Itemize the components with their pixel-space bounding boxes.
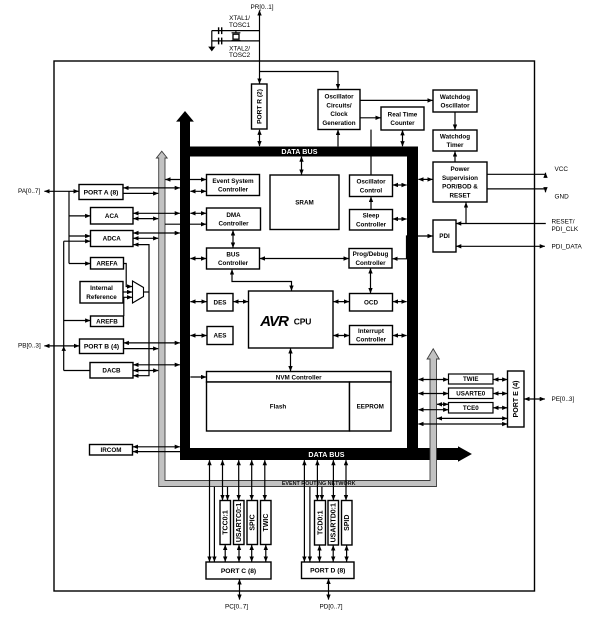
- svg-text:Internal: Internal: [90, 285, 113, 292]
- wire data bus to TCC0:1: [222, 460, 224, 500]
- wire data bus to clock generation: [337, 130, 339, 147]
- capacitor C1 plates (XTAL1 wire): [219, 27, 222, 34]
- svg-text:TWIC: TWIC: [263, 514, 270, 532]
- chip boundary box: [54, 61, 535, 591]
- port box PORT A (8): [79, 185, 123, 200]
- capacitor C2 plates (XTAL2 wire): [219, 38, 222, 45]
- svg-text:DATA BUS: DATA BUS: [308, 451, 344, 459]
- block SRAM: [270, 175, 339, 230]
- svg-text:EVENT ROUTING NETWORK: EVENT ROUTING NETWORK: [282, 481, 356, 487]
- block Interrupt Controller: [350, 326, 393, 345]
- wire trunk 1 to ADCA: [69, 235, 90, 237]
- junction arrow (trunk 2 into PB line): [62, 346, 67, 351]
- svg-text:Watchdog: Watchdog: [440, 133, 470, 140]
- peripheral box USARTC0:1: [234, 501, 245, 545]
- svg-text:PDI: PDI: [439, 233, 450, 240]
- wire mux output net (to ADCA and DACB): [134, 245, 149, 376]
- peripheral box TCD0:1: [315, 501, 326, 546]
- svg-text:Prog/Debug: Prog/Debug: [353, 251, 389, 258]
- wire clock generation to watchdog oscillator: [360, 99, 432, 101]
- block Sleep Controller: [350, 210, 393, 231]
- svg-text:DMA: DMA: [226, 212, 241, 219]
- peripheral box TWIC: [261, 501, 272, 545]
- crystal Y1: [232, 31, 241, 41]
- svg-text:Circuits/: Circuits/: [326, 102, 351, 109]
- data bus frame: big up arrow (top-left): [176, 111, 194, 130]
- block TWIE: [449, 374, 494, 384]
- wire prog/debug controller to OCD: [370, 268, 372, 293]
- svg-text:SPIC: SPIC: [250, 514, 257, 530]
- wire XTAL2 wire: [212, 40, 260, 42]
- wire data bus to SPID: [345, 460, 347, 500]
- block AREFB: [91, 316, 124, 327]
- wire AREFB to mux: [124, 297, 132, 316]
- svg-text:PORT R (2): PORT R (2): [257, 89, 264, 124]
- wire CPU to interrupt controller: [333, 335, 349, 337]
- svg-text:AREFB: AREFB: [96, 319, 118, 326]
- svg-text:AVR: AVR: [259, 313, 289, 330]
- wire PB[0..3] pin line: [44, 345, 79, 347]
- block TCE0: [449, 403, 494, 414]
- wire AES to data bus: [190, 335, 206, 337]
- wire trunk 1 to ACA: [69, 215, 90, 217]
- svg-text:PR[0..1]: PR[0..1]: [250, 4, 273, 11]
- svg-text:Oscillator: Oscillator: [356, 179, 386, 186]
- port box PORT C (8): [206, 562, 271, 579]
- wire PORT B to data bus: [124, 342, 180, 344]
- wire ground stub: [211, 31, 213, 48]
- svg-text:PC[0..7]: PC[0..7]: [225, 603, 248, 610]
- block AREFA: [91, 258, 124, 270]
- data bus frame: right vertical bar: [407, 147, 418, 461]
- wire event network to PORT E: [437, 417, 507, 419]
- wire PR[0..1] pin line with arrows: [259, 10, 261, 83]
- wire event system controller to data bus: [190, 190, 206, 192]
- svg-text:OCD: OCD: [364, 300, 378, 307]
- wire event network to TCC0:1: [227, 487, 229, 500]
- svg-text:DES: DES: [214, 300, 227, 307]
- svg-text:TOSC2: TOSC2: [229, 52, 251, 59]
- svg-text:Interrupt: Interrupt: [358, 328, 385, 335]
- svg-text:Flash: Flash: [270, 404, 287, 411]
- wire data bus to PORT E: [418, 423, 507, 425]
- svg-text:BUS: BUS: [226, 251, 239, 258]
- wire clock generation to oscillator control: [370, 130, 372, 175]
- wire analog trunk 2 (PB net): [63, 241, 65, 370]
- wire data bus to IRCOM: [133, 451, 180, 453]
- svg-text:RESET/: RESET/: [552, 218, 575, 225]
- wire watchdog oscillator to watchdog timer: [454, 112, 456, 129]
- port box PORT R (2): [252, 84, 268, 129]
- svg-text:PORT D (8): PORT D (8): [310, 568, 345, 575]
- svg-text:Supervision: Supervision: [442, 175, 478, 182]
- wire power supervision to bus frame: [418, 178, 432, 180]
- wire trunk 2 to AREFB: [64, 320, 90, 322]
- block Internal Reference: [80, 282, 123, 304]
- svg-text:DACB: DACB: [102, 368, 121, 375]
- svg-text:PB[0..3]: PB[0..3]: [18, 343, 41, 350]
- wire TCE0 to PORT E: [493, 407, 507, 409]
- svg-text:Controller: Controller: [356, 221, 387, 228]
- wire PR line branch to clock generation: [260, 72, 339, 90]
- svg-text:AREFA: AREFA: [96, 261, 118, 268]
- svg-text:DATA BUS: DATA BUS: [281, 148, 317, 156]
- svg-text:Timer: Timer: [446, 142, 464, 149]
- wire PORT A to data bus: [124, 187, 180, 189]
- svg-text:ACA: ACA: [105, 213, 119, 220]
- event routing network frame (gray U with two up arrows): [156, 151, 439, 486]
- wire USARTE0 to PORT E: [493, 393, 507, 395]
- svg-text:RESET: RESET: [450, 193, 471, 200]
- block ADCA: [91, 231, 134, 247]
- svg-text:Reference: Reference: [86, 294, 117, 301]
- svg-text:TCC0:1: TCC0:1: [223, 510, 230, 535]
- svg-text:IRCOM: IRCOM: [101, 447, 122, 454]
- wire DES to data bus: [190, 301, 206, 303]
- wire PDI to prog/debug controller: [393, 236, 433, 259]
- svg-text:Real Time: Real Time: [388, 111, 418, 118]
- wire TWIC to PORT C: [265, 545, 267, 562]
- svg-text:Controller: Controller: [355, 260, 386, 267]
- block DACB: [90, 363, 133, 379]
- data bus frame: top horizontal bar: [180, 147, 418, 157]
- wire USARTD0:1 to PORT D: [332, 545, 334, 561]
- block Flash: [207, 382, 350, 431]
- wire OCD to bus frame: [393, 301, 407, 303]
- svg-text:TWIE: TWIE: [463, 376, 478, 383]
- wire event system controller to event network: [165, 179, 206, 181]
- svg-text:PDI_CLK: PDI_CLK: [552, 226, 579, 233]
- wire data bus to PORT C: [209, 460, 211, 561]
- wire CPU to NVM controller: [290, 348, 292, 371]
- block ACA: [91, 208, 134, 225]
- block NVM Controller: [207, 372, 392, 383]
- wire RESET branch to power supervision: [465, 203, 467, 224]
- wire CPU to OCD: [333, 301, 349, 303]
- block Oscillator Circuits / Clock Generation: [318, 90, 360, 130]
- svg-text:Sleep: Sleep: [363, 213, 380, 220]
- wire TWIE to PORT E: [493, 379, 507, 381]
- wire TCE0 to event network: [437, 403, 448, 405]
- wire AREFA to mux: [124, 264, 133, 287]
- block USARTE0: [449, 388, 494, 399]
- wire BUS controller to data bus: [190, 258, 206, 260]
- wire BUS controller to CPU: [232, 270, 292, 291]
- wire DACB to data bus: [133, 364, 179, 366]
- wire VCC pin line: [487, 173, 546, 175]
- svg-text:PORT C (8): PORT C (8): [221, 568, 256, 575]
- svg-text:Oscillator: Oscillator: [324, 93, 354, 100]
- svg-text:USARTC0:1: USARTC0:1: [236, 503, 243, 542]
- wire ACA to event network: [133, 218, 158, 220]
- svg-text:TOSC1: TOSC1: [229, 22, 251, 29]
- svg-text:PA[0..7]: PA[0..7]: [18, 188, 40, 195]
- block BUS Controller: [207, 248, 260, 269]
- svg-text:Event System: Event System: [212, 178, 254, 185]
- svg-text:PE[0..3]: PE[0..3]: [552, 396, 575, 403]
- wire PORT A to event network: [124, 192, 159, 194]
- wire TWIE to data bus: [418, 379, 448, 381]
- wire sleep controller to oscillator control: [370, 197, 372, 209]
- data bus frame: big right arrow (bottom): [458, 446, 472, 461]
- svg-text:Controller: Controller: [356, 337, 387, 344]
- wire TCD0:1 to PORT D: [319, 545, 321, 561]
- wire trunk 2 to DACB: [64, 370, 90, 372]
- wire DMA controller to data bus: [190, 212, 206, 214]
- svg-text:Generation: Generation: [322, 120, 355, 127]
- wire TCE0 to data bus: [418, 409, 448, 411]
- svg-text:VCC: VCC: [555, 166, 569, 173]
- mux (analog reference selector): [133, 281, 144, 303]
- svg-text:POR/BOD &: POR/BOD &: [442, 184, 478, 191]
- svg-text:NVM Controller: NVM Controller: [276, 374, 322, 381]
- svg-text:ADCA: ADCA: [103, 236, 122, 243]
- wire SPIC to PORT C: [251, 545, 253, 562]
- block Oscillator Control: [350, 175, 393, 197]
- svg-text:Counter: Counter: [390, 120, 415, 127]
- svg-text:PORT A (8): PORT A (8): [84, 189, 119, 196]
- wire data bus to NVM controller: [190, 376, 206, 378]
- peripheral box USARTD0:1: [328, 501, 339, 546]
- svg-text:PDI_DATA: PDI_DATA: [552, 244, 583, 251]
- wire TCC0:1 to PORT C: [224, 545, 226, 562]
- port box PORT E (4): [508, 371, 525, 427]
- wire GND pin line: [487, 189, 546, 192]
- wire ADCA to event network: [133, 237, 158, 239]
- peripheral box SPID: [342, 501, 353, 546]
- block Watchdog Timer: [433, 130, 477, 151]
- wire interrupt controller to bus frame: [393, 335, 407, 337]
- block EEPROM: [350, 382, 392, 431]
- svg-text:Controller: Controller: [218, 260, 249, 267]
- wire PORT B to event network: [124, 348, 158, 350]
- svg-text:TCD0:1: TCD0:1: [317, 510, 324, 535]
- wire PDI_DATA pin line: [456, 245, 545, 247]
- wire mux output stub: [144, 291, 149, 293]
- block DES: [207, 294, 233, 312]
- wire USARTC0:1 to PORT C: [238, 545, 240, 562]
- wire data bus to TWIC: [264, 460, 266, 500]
- wire SPID to PORT D: [346, 545, 348, 561]
- wire PE[0..3] pin line: [524, 398, 544, 400]
- svg-text:TCE0: TCE0: [463, 405, 479, 412]
- peripheral box SPIC: [247, 501, 258, 545]
- block OCD: [350, 294, 393, 312]
- svg-text:PORT B (4): PORT B (4): [84, 344, 119, 351]
- block Event System Controller: [207, 175, 260, 196]
- svg-text:Control: Control: [360, 187, 383, 194]
- wire PC[0..7] pin line: [239, 579, 241, 599]
- wire analog trunk 1 (PA net): [68, 191, 70, 263]
- svg-text:Watchdog: Watchdog: [440, 94, 470, 101]
- data bus frame: bottom horizontal bar: [180, 448, 458, 460]
- svg-text:SPID: SPID: [344, 515, 351, 531]
- svg-text:AES: AES: [214, 333, 227, 340]
- wire real time counter to data bus: [402, 130, 404, 146]
- wire DMA controller to BUS controller: [232, 230, 234, 247]
- block PDI: [433, 220, 456, 252]
- block Power Supervision POR/BOD & RESET: [433, 162, 487, 202]
- wire data bus to USARTD0:1: [332, 460, 334, 500]
- wire BUS controller to prog/debug controller: [260, 258, 349, 260]
- svg-text:Oscillator: Oscillator: [440, 103, 470, 110]
- wire ADCA to data bus: [133, 232, 179, 234]
- wire IRCOM to data bus: [133, 446, 180, 448]
- svg-text:PD[0..7]: PD[0..7]: [319, 603, 342, 610]
- wire PD[0..7] pin line: [328, 579, 330, 600]
- peripheral box TCC0:1: [220, 501, 231, 545]
- wire USARTE0 to data bus: [418, 393, 448, 395]
- wire data bus to USARTC0:1: [238, 460, 240, 500]
- wire XTAL1 wire: [212, 30, 260, 32]
- wire SRAM to data bus: [301, 157, 303, 175]
- block AES: [207, 327, 233, 345]
- wire power supervision to watchdog timer: [454, 152, 456, 162]
- svg-text:SRAM: SRAM: [295, 200, 314, 207]
- wire RESET/PDI_CLK pin line: [456, 223, 546, 225]
- wire data bus to PORT D: [303, 460, 305, 561]
- wire event network to TCD0:1: [321, 487, 323, 500]
- wire data bus to SPIC: [251, 460, 253, 500]
- wire oscillator control to bus frame: [393, 184, 407, 186]
- svg-text:Clock: Clock: [330, 111, 348, 118]
- wire PA[0..7] pin line: [44, 190, 78, 192]
- port box PORT B (4): [80, 339, 124, 354]
- svg-text:EEPROM: EEPROM: [357, 404, 384, 411]
- block DMA Controller: [207, 208, 261, 230]
- wire PORT R to data bus: [259, 130, 261, 146]
- svg-text:Controller: Controller: [218, 221, 249, 228]
- wire DES to CPU: [233, 301, 248, 303]
- wire data bus to TCD0:1: [316, 460, 318, 500]
- svg-text:USARTD0:1: USARTD0:1: [331, 503, 338, 542]
- svg-text:Controller: Controller: [218, 187, 249, 194]
- wire internal reference to mux: [123, 291, 132, 293]
- wire event network to PORT C: [213, 487, 215, 562]
- wire DACB to event network: [133, 370, 158, 372]
- wire trunk 1 to AREFA: [69, 263, 90, 265]
- data bus frame: left vertical bar: [180, 121, 190, 461]
- wire event network to DMA controller: [165, 223, 206, 225]
- wire event network to PORT D: [309, 487, 311, 562]
- wire ACA to data bus: [133, 212, 179, 214]
- svg-text:PORT E (4): PORT E (4): [512, 380, 520, 418]
- wire clock generation to real time counter: [360, 117, 380, 119]
- wire sleep controller to bus frame: [393, 218, 407, 220]
- svg-text:Power: Power: [451, 166, 470, 173]
- port box PORT D (8): [302, 562, 355, 579]
- wire trunk 2 to ADCA: [64, 240, 90, 242]
- svg-text:USARTE0: USARTE0: [456, 390, 485, 397]
- block Watchdog Oscillator: [433, 90, 477, 112]
- block CPU (AVR core): [249, 291, 334, 348]
- block IRCOM: [90, 445, 133, 456]
- block Prog/Debug Controller: [349, 249, 392, 269]
- svg-text:CPU: CPU: [294, 316, 311, 326]
- block Real Time Counter: [381, 107, 424, 130]
- svg-text:GND: GND: [555, 193, 570, 200]
